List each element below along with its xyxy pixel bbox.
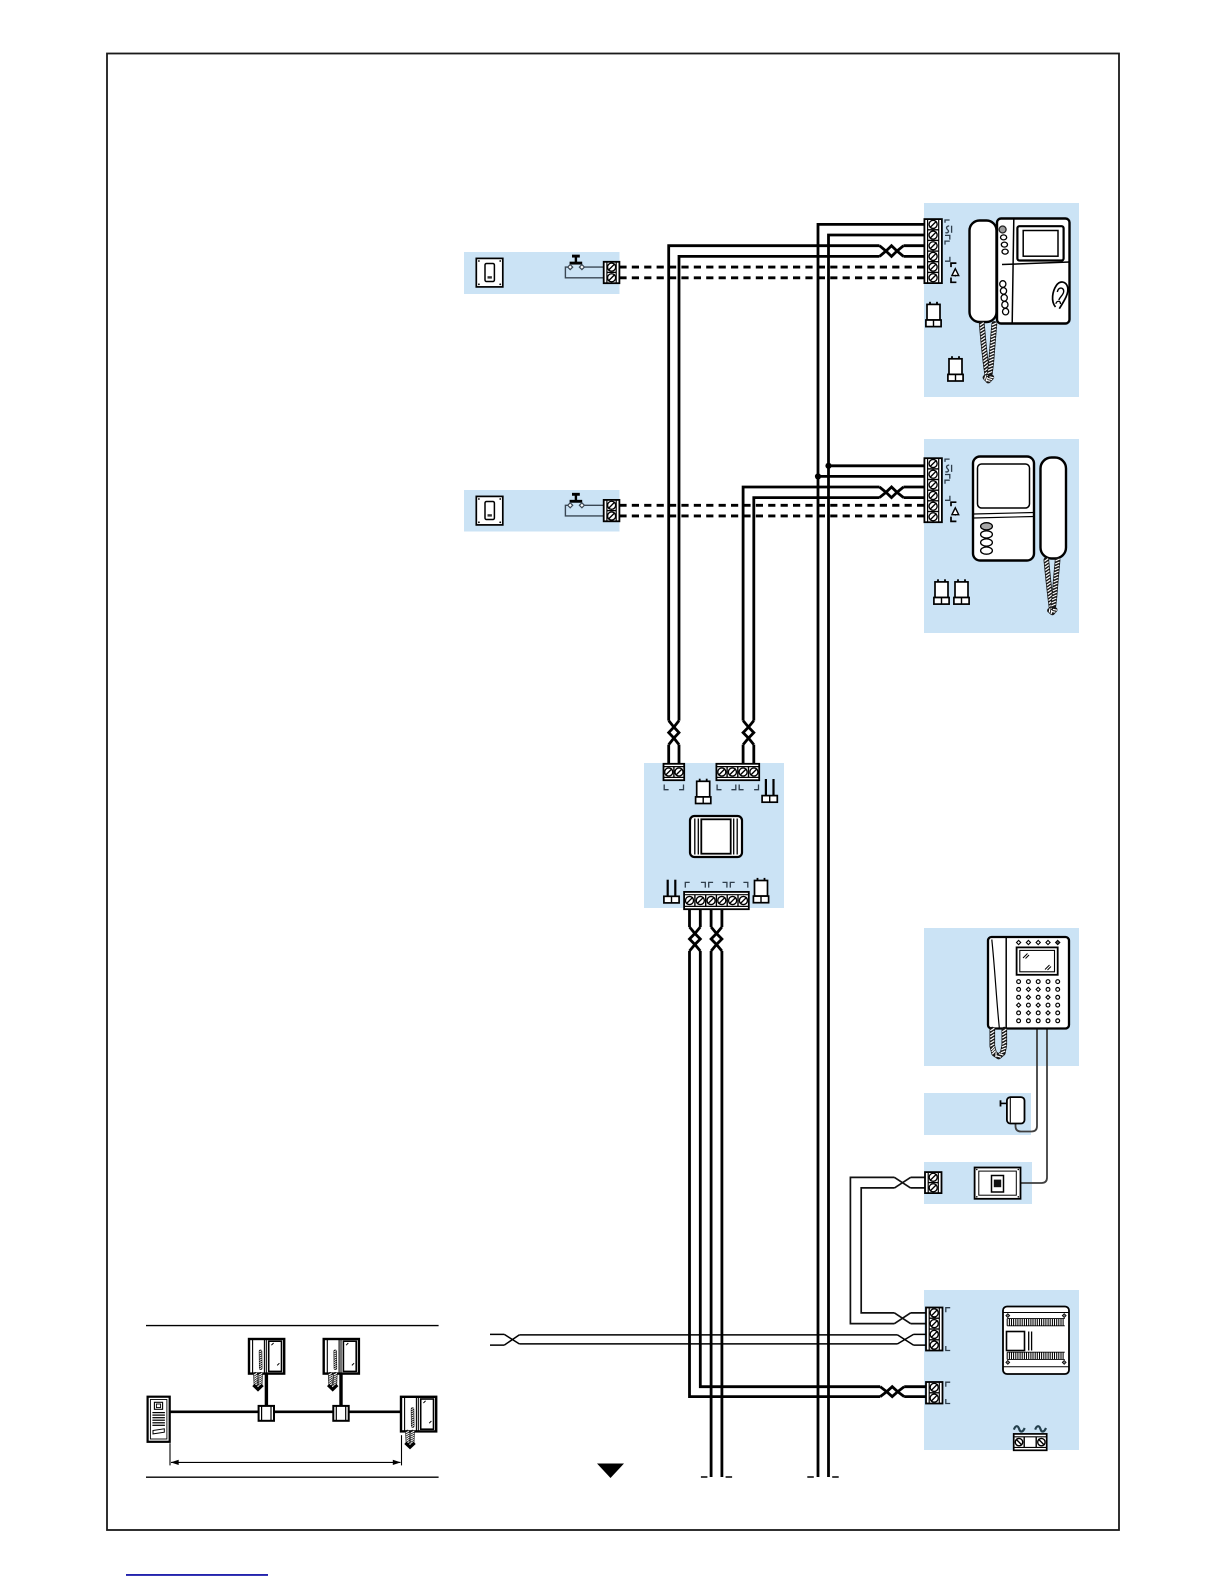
wire dashed pair pushbutton 2 to monitor 2 terminals 5-6: [619, 505, 924, 516]
plug-in power adapter: [1001, 1097, 1025, 1123]
page frame: [107, 54, 1119, 1531]
wire riser bus A from monitor 1 terminal 1: [818, 224, 924, 1477]
inset branch wire 2: [339, 1374, 342, 1406]
wire pushbutton 1 to terminal block: [565, 267, 603, 278]
wire riser bus B from monitor 1 terminal 2: [829, 235, 925, 1477]
inset entrance panel icon: [148, 1397, 170, 1442]
inset diagram bottom rule: [146, 1476, 439, 1478]
continuation triangle marker: [597, 1464, 624, 1479]
terminal block monitor 2 (6-pole): [924, 458, 942, 522]
inset junction box 2: [333, 1406, 348, 1421]
pin header distributor top-right: [762, 779, 777, 802]
distributor central module: [690, 816, 742, 857]
socket highlight box: [924, 1162, 1032, 1204]
jumper distributor top: [696, 779, 711, 804]
jumper monitor 1 (b): [948, 356, 963, 381]
terminal block pushbutton 2: [604, 500, 620, 522]
socket wall plate with jack: [975, 1168, 1021, 1199]
AC tilde symbols: [1014, 1426, 1046, 1431]
terminal block socket (2-pole): [925, 1172, 942, 1193]
power supply terminal crop marks: [946, 1308, 950, 1404]
switchboard highlight box: [924, 928, 1079, 1066]
inset internal unit icon 1: [249, 1339, 284, 1389]
wire twisted pair monitor 2 terminals 3-4 to distributor input: [743, 487, 924, 764]
pushbutton 1 wall plate: [476, 258, 503, 287]
terminal block distributor top-right (4-pole): [716, 764, 759, 780]
pin header distributor bottom-left: [664, 880, 679, 903]
switchboard (porter unit) illustration: [988, 937, 1069, 1057]
terminal block pushbutton 1: [604, 262, 620, 283]
wire twisted pair monitor 1 terminals 3-4 to distributor input: [669, 246, 925, 764]
monitor 1 terminal labels: [945, 220, 959, 282]
inset diagram top rule: [146, 1325, 439, 1327]
jumper monitor 2 (a): [934, 579, 949, 604]
pushbutton 1 highlight box: [464, 252, 620, 294]
DIN-rail power supply module: [1003, 1307, 1069, 1375]
terminal block mains AC (2-pole with spacer): [1014, 1434, 1047, 1450]
inset internal unit icon 2: [324, 1339, 359, 1389]
distributor terminal labels crop marks: [664, 785, 758, 888]
wire dashed pair pushbutton 1 to monitor 1 terminals 5-6: [619, 267, 924, 278]
pushbutton 2 highlight box: [464, 490, 620, 532]
terminal block distributor bottom (6-pole): [684, 892, 749, 909]
monitor 2 terminal labels: [945, 459, 959, 521]
wire switchboard line cord to socket jack: [1001, 1029, 1047, 1184]
inset branch wire 1: [265, 1374, 268, 1406]
terminal block distributor top-left (2-pole): [664, 764, 685, 780]
junction dot riser B: [825, 463, 831, 469]
terminal block power supply (4-pole): [926, 1308, 943, 1351]
wire monitor 2 terminal 1 tap to riser B: [829, 464, 925, 467]
jumper distributor bottom-right: [753, 878, 768, 903]
footer link underline: [126, 1574, 268, 1576]
pushbutton 2 contact symbol: [568, 494, 585, 508]
pushbutton 1 contact symbol: [568, 256, 585, 270]
wire twisted pair distributor output 3-4 riser continuation: [711, 909, 722, 1477]
wire pushbutton 2 to terminal block: [565, 505, 603, 516]
jumper monitor 2 (b): [954, 579, 969, 604]
video monitor 1 illustration: [970, 219, 1070, 382]
inset bus wire: [170, 1411, 401, 1414]
adapter highlight box: [924, 1093, 1031, 1135]
pushbutton 2 wall plate: [476, 496, 503, 525]
monitor 1 highlight box: [924, 203, 1079, 397]
inset dimension line: [170, 1435, 402, 1465]
terminal block power supply BUS (2-pole): [926, 1382, 943, 1404]
wire-end cut marks: [701, 1476, 839, 1478]
wire monitor 2 terminal 2 tap to riser A: [818, 475, 924, 478]
distributor highlight box: [644, 763, 784, 908]
junction dot riser A: [815, 473, 821, 479]
wire twisted pair distributor output 1-2 to power supply BUS: [690, 909, 927, 1396]
monitor 2 highlight box: [924, 439, 1079, 633]
inset internal unit icon 3: [401, 1397, 436, 1447]
audio internal unit 2 illustration: [973, 457, 1066, 615]
wire twisted pair socket terminals to power supply terminals 1-2: [850, 1177, 926, 1323]
inset junction box 1: [259, 1406, 274, 1421]
jumper monitor 1 (a): [926, 302, 941, 327]
power supply highlight box: [924, 1290, 1079, 1450]
wire switchboard power cord to adapter: [1016, 1029, 1038, 1132]
terminal block monitor 1 (6-pole): [924, 219, 942, 283]
wire thin twisted pair power supply terminals 3-4 to external line: [490, 1334, 926, 1345]
